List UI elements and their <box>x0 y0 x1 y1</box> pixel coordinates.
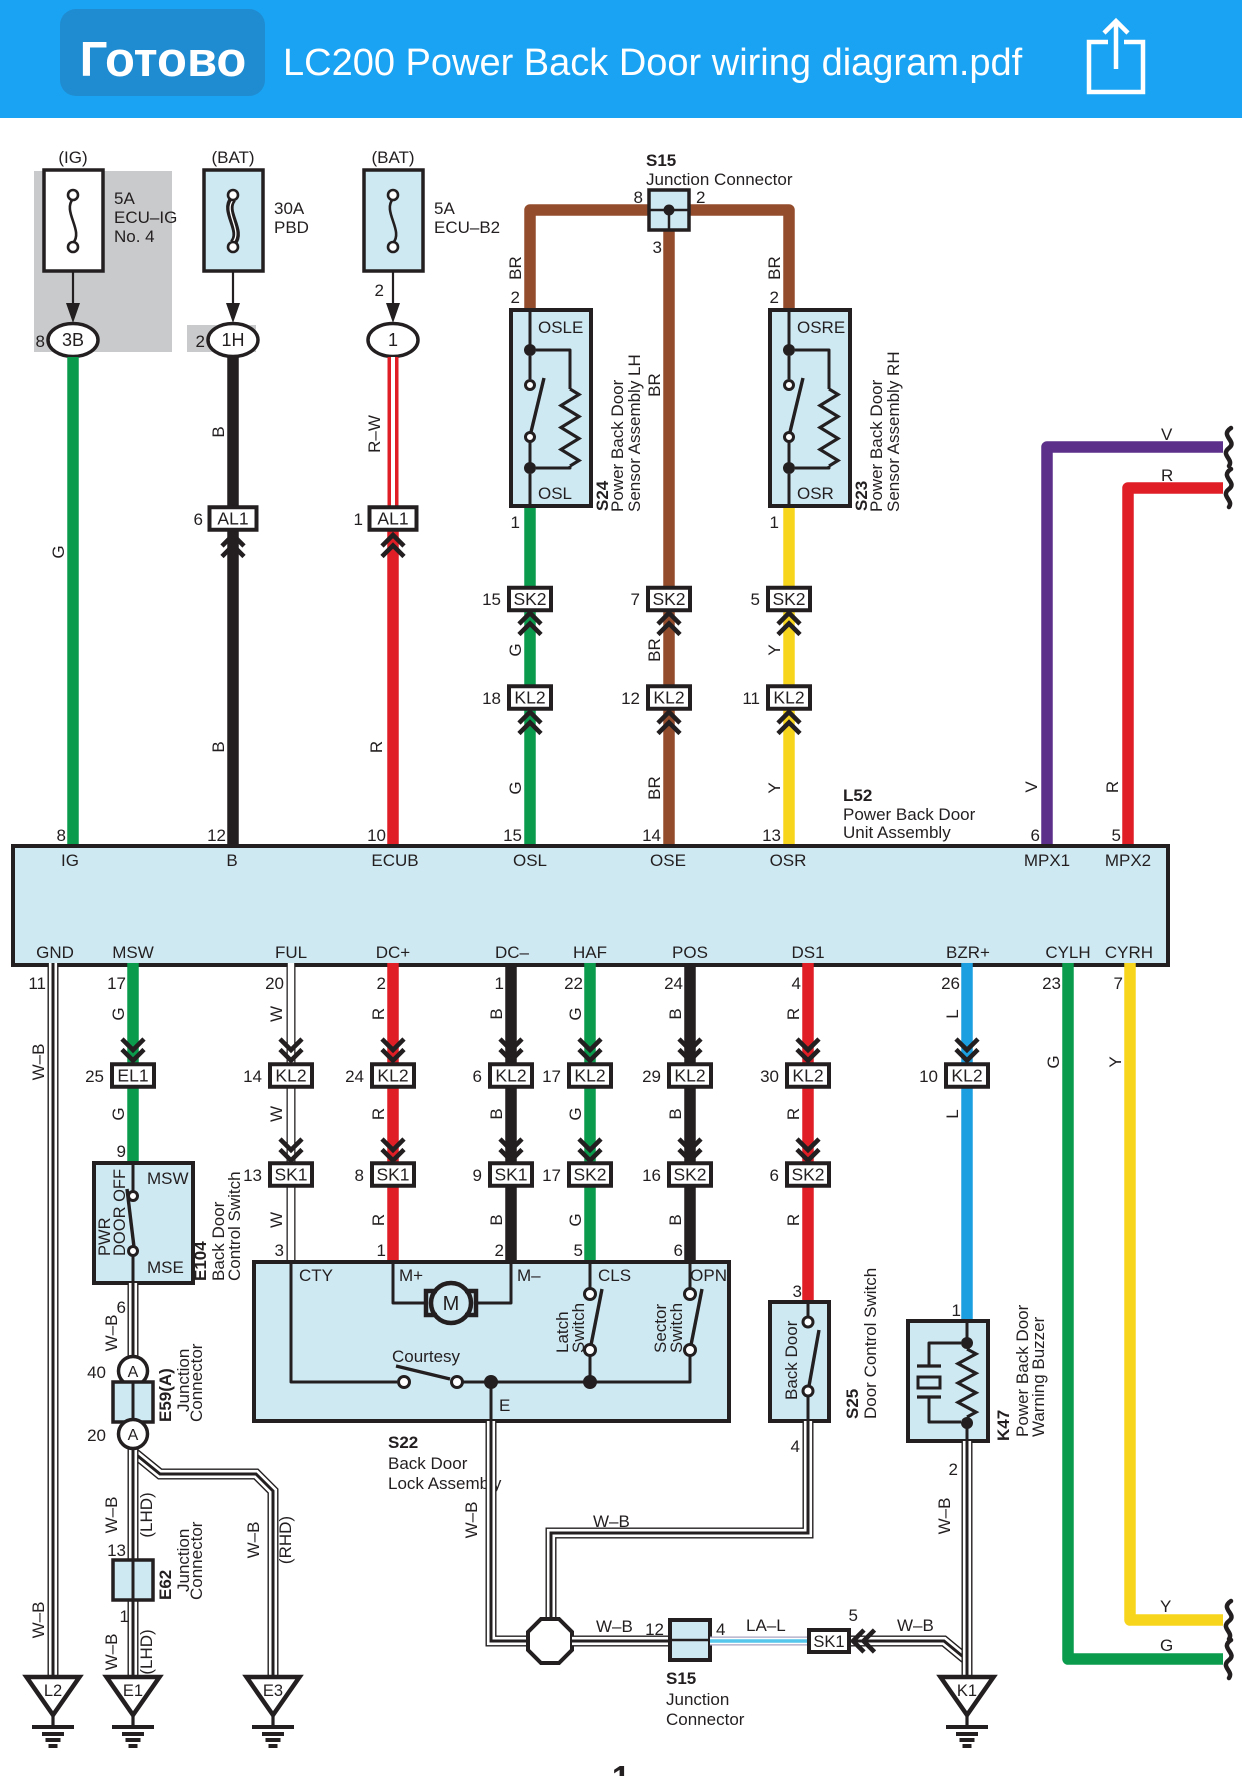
svg-text:E59(A): E59(A) <box>156 1368 175 1422</box>
svg-text:30: 30 <box>760 1067 779 1086</box>
svg-text:16: 16 <box>642 1166 661 1185</box>
connector KL2 pin 11 <box>768 686 810 709</box>
wire W-B MSE to E59 <box>128 1283 139 1677</box>
svg-text:3: 3 <box>653 238 662 257</box>
svg-text:25: 25 <box>85 1067 104 1086</box>
svg-text:KL2: KL2 <box>377 1066 408 1086</box>
svg-text:1H: 1H <box>221 330 244 350</box>
done button <box>60 9 265 96</box>
wire W-B K47 to ground K1 <box>962 1441 973 1677</box>
svg-text:11: 11 <box>742 689 760 708</box>
svg-text:W–B: W–B <box>935 1498 954 1535</box>
svg-text:R: R <box>1161 466 1173 485</box>
svg-text:LC200 Power Back Door wiring d: LC200 Power Back Door wiring diagram.pdf <box>283 42 1023 84</box>
svg-text:Switch: Switch <box>569 1303 588 1353</box>
svg-text:26: 26 <box>941 974 960 993</box>
svg-text:DOOR OFF: DOOR OFF <box>111 1169 129 1256</box>
junction connector E62 <box>113 1560 153 1600</box>
svg-text:R–W: R–W <box>365 415 384 453</box>
svg-text:SK2: SK2 <box>791 1165 824 1185</box>
svg-text:E1: E1 <box>123 1682 143 1700</box>
svg-text:OSR: OSR <box>797 484 834 503</box>
wire fuse F1 to connector 3B <box>72 271 74 308</box>
svg-text:G: G <box>566 1107 585 1120</box>
svg-text:ECU–IG: ECU–IG <box>114 208 177 227</box>
svg-text:1: 1 <box>770 513 779 532</box>
svg-text:G: G <box>1160 1636 1173 1655</box>
svg-text:G: G <box>109 1107 128 1120</box>
svg-text:6: 6 <box>194 510 203 529</box>
wire fuse F3 to connector 1 <box>392 271 394 308</box>
power back door unit assembly L52 <box>13 846 1168 965</box>
svg-text:2: 2 <box>696 188 705 207</box>
wire fuse F2 to connector 1H <box>232 271 234 308</box>
svg-text:HAF: HAF <box>573 943 607 962</box>
svg-text:Control Switch: Control Switch <box>225 1171 244 1281</box>
svg-text:Junction Connector: Junction Connector <box>646 170 793 189</box>
svg-text:Y: Y <box>1106 1056 1125 1067</box>
wire G MSW <box>127 963 139 1163</box>
svg-text:L2: L2 <box>44 1682 62 1700</box>
svg-text:S15: S15 <box>666 1669 696 1688</box>
svg-text:OSLE: OSLE <box>538 318 583 337</box>
svg-text:CYLH: CYLH <box>1045 943 1090 962</box>
svg-text:B: B <box>487 1108 506 1119</box>
svg-text:W–B: W–B <box>462 1502 481 1539</box>
wire R MPX2 <box>1128 488 1223 848</box>
svg-text:G: G <box>506 643 525 656</box>
wire LA-L S15 to SK1 <box>710 1637 809 1646</box>
svg-text:1: 1 <box>511 513 520 532</box>
svg-text:Back Door: Back Door <box>782 1320 801 1400</box>
svg-text:22: 22 <box>564 974 583 993</box>
svg-text:BR: BR <box>645 638 664 662</box>
svg-text:AL1: AL1 <box>217 509 248 529</box>
svg-text:MSW: MSW <box>112 943 154 962</box>
svg-text:POS: POS <box>672 943 708 962</box>
svg-text:14: 14 <box>243 1067 262 1086</box>
svg-text:OSRE: OSRE <box>797 318 845 337</box>
svg-text:M: M <box>443 1293 460 1315</box>
svg-text:SK2: SK2 <box>573 1165 606 1185</box>
connector SK1 pin 13 <box>270 1163 312 1186</box>
svg-text:13: 13 <box>107 1541 126 1560</box>
svg-text:9: 9 <box>473 1166 482 1185</box>
svg-text:W–B: W–B <box>102 1497 121 1534</box>
svg-text:SK2: SK2 <box>513 589 546 609</box>
connector KL2 pin 24 <box>372 1064 414 1087</box>
svg-text:K47: K47 <box>994 1410 1013 1441</box>
svg-text:(LHD): (LHD) <box>137 1492 156 1537</box>
svg-text:15: 15 <box>482 590 501 609</box>
svg-text:9: 9 <box>117 1142 126 1161</box>
svg-text:1: 1 <box>495 974 504 993</box>
wire W-B SK1 to K1 wire <box>849 1641 967 1660</box>
svg-text:G: G <box>1044 1055 1063 1068</box>
svg-text:W–B: W–B <box>897 1616 934 1635</box>
junction octagon <box>528 1619 572 1663</box>
svg-text:8: 8 <box>634 188 643 207</box>
svg-text:6: 6 <box>117 1298 126 1317</box>
motor M <box>393 1262 425 1303</box>
svg-text:W: W <box>267 1106 286 1122</box>
svg-text:10: 10 <box>919 1067 938 1086</box>
wire L BZR+ <box>961 963 973 1321</box>
connector KL2 pin 30 <box>787 1064 829 1087</box>
svg-text:Door Control Switch: Door Control Switch <box>861 1268 880 1419</box>
svg-text:7: 7 <box>631 590 640 609</box>
svg-text:R: R <box>369 1214 388 1226</box>
buzzer symbol <box>929 1343 961 1366</box>
svg-text:24: 24 <box>345 1067 364 1086</box>
svg-text:5: 5 <box>1112 826 1121 845</box>
svg-text:DS1: DS1 <box>791 943 824 962</box>
svg-text:17: 17 <box>542 1067 561 1086</box>
svg-text:KL2: KL2 <box>674 1066 705 1086</box>
svg-text:R: R <box>369 1008 388 1020</box>
svg-text:W–B: W–B <box>102 1634 121 1671</box>
svg-text:CTY: CTY <box>299 1266 333 1285</box>
svg-text:OSL: OSL <box>513 851 547 870</box>
svg-text:7: 7 <box>1114 974 1123 993</box>
connector SK1 pin 8 <box>372 1163 414 1186</box>
svg-text:(BAT): (BAT) <box>371 148 414 167</box>
svg-text:- 1 -: - 1 - <box>592 1759 651 1776</box>
svg-text:Connector: Connector <box>187 1343 206 1422</box>
ground E1 <box>107 1677 160 1746</box>
wire W FUL <box>287 963 296 1262</box>
share icon <box>1089 21 1143 92</box>
svg-text:L: L <box>943 1109 962 1118</box>
svg-text:KL2: KL2 <box>514 688 545 708</box>
wire G HAF <box>584 963 596 1262</box>
svg-text:Warning Buzzer: Warning Buzzer <box>1029 1316 1048 1437</box>
svg-text:CYRH: CYRH <box>1105 943 1153 962</box>
svg-text:W–B: W–B <box>244 1522 263 1559</box>
svg-text:EL1: EL1 <box>117 1066 148 1086</box>
svg-text:No. 4: No. 4 <box>114 227 155 246</box>
wire B fuse to L52 B <box>227 357 239 848</box>
svg-text:2: 2 <box>375 281 384 300</box>
svg-text:15: 15 <box>503 826 522 845</box>
svg-text:2: 2 <box>949 1460 958 1479</box>
door control switch S25 <box>770 1302 829 1421</box>
svg-text:Sensor Assembly RH: Sensor Assembly RH <box>884 351 903 512</box>
latch switch <box>589 1262 592 1289</box>
svg-text:E104: E104 <box>191 1241 210 1281</box>
svg-text:W–B: W–B <box>102 1315 121 1352</box>
sector switch <box>689 1262 692 1289</box>
svg-text:R: R <box>369 1108 388 1120</box>
svg-text:G: G <box>49 545 68 558</box>
svg-text:20: 20 <box>265 974 284 993</box>
svg-text:OSR: OSR <box>770 851 807 870</box>
svg-text:R: R <box>367 741 386 753</box>
svg-text:3: 3 <box>275 1241 284 1260</box>
svg-text:Lock Assembly: Lock Assembly <box>388 1474 502 1493</box>
svg-text:12: 12 <box>645 1620 664 1639</box>
svg-text:BR: BR <box>765 256 784 280</box>
wire BR S15 pin3 to L52 OSE <box>663 228 675 848</box>
svg-text:40: 40 <box>87 1363 106 1382</box>
svg-text:23: 23 <box>1042 974 1061 993</box>
connector KL2 pin 17 <box>569 1064 611 1087</box>
svg-text:11: 11 <box>28 974 46 993</box>
svg-text:BR: BR <box>645 776 664 800</box>
svg-text:E62: E62 <box>156 1570 175 1600</box>
junction connector E59(A) <box>113 1382 153 1422</box>
svg-text:FUL: FUL <box>275 943 307 962</box>
svg-text:Back Door: Back Door <box>388 1454 468 1473</box>
svg-text:3B: 3B <box>62 330 84 350</box>
connector SK1 <box>809 1630 849 1652</box>
svg-text:B: B <box>226 851 237 870</box>
ground L2 <box>27 1677 80 1746</box>
svg-text:KL2: KL2 <box>495 1066 526 1086</box>
svg-text:ECUB: ECUB <box>371 851 418 870</box>
connector SK2 pin 6 <box>787 1163 829 1186</box>
wire W-B S25 to octagon <box>551 1421 808 1618</box>
svg-text:K1: K1 <box>957 1682 977 1700</box>
svg-text:1: 1 <box>952 1301 961 1320</box>
svg-text:W: W <box>267 1006 286 1022</box>
svg-text:G: G <box>109 1007 128 1020</box>
svg-text:5A: 5A <box>434 199 455 218</box>
power back door sensor assembly RH S23 <box>770 310 850 506</box>
wire R DS1 <box>802 963 814 1302</box>
svg-text:AL1: AL1 <box>377 509 408 529</box>
back door control switch E104 <box>94 1163 193 1283</box>
svg-text:B: B <box>666 1108 685 1119</box>
connector SK2 pin 5 <box>768 588 810 611</box>
svg-text:Sensor Assembly LH: Sensor Assembly LH <box>625 354 644 512</box>
svg-text:KL2: KL2 <box>574 1066 605 1086</box>
svg-text:8: 8 <box>57 826 66 845</box>
connector KL2 pin 29 <box>669 1064 711 1087</box>
svg-text:Y: Y <box>765 644 784 655</box>
svg-text:20: 20 <box>87 1426 106 1445</box>
svg-text:R: R <box>784 1108 803 1120</box>
svg-text:G: G <box>566 1213 585 1226</box>
header bar <box>0 0 1242 118</box>
svg-text:R: R <box>1103 781 1122 793</box>
connector KL2 pin 6 <box>490 1064 532 1087</box>
svg-text:29: 29 <box>642 1067 661 1086</box>
svg-text:W–B: W–B <box>593 1512 630 1531</box>
svg-text:SK1: SK1 <box>494 1165 527 1185</box>
connector SK2 pin 7 <box>648 588 690 611</box>
svg-text:W: W <box>267 1212 286 1228</box>
svg-text:GND: GND <box>36 943 74 962</box>
fuse F1 5A ECU-IG No.4 <box>44 170 103 271</box>
svg-text:6: 6 <box>473 1067 482 1086</box>
wire R DC+ <box>387 963 399 1262</box>
ground E3 <box>247 1677 300 1746</box>
connector AL1 pin6 <box>210 507 257 530</box>
svg-text:18: 18 <box>482 689 501 708</box>
svg-text:PBD: PBD <box>274 218 309 237</box>
svg-text:KL2: KL2 <box>792 1066 823 1086</box>
junction connector S15 bottom <box>670 1620 710 1660</box>
svg-text:(BAT): (BAT) <box>211 148 254 167</box>
svg-text:2: 2 <box>495 1241 504 1260</box>
svg-text:24: 24 <box>664 974 683 993</box>
svg-text:2: 2 <box>511 288 520 307</box>
back door lock assembly S22 <box>254 1262 729 1421</box>
connector KL2 pin 18 <box>509 686 551 709</box>
break symbol G <box>1226 1640 1232 1678</box>
connector KL2 pin 12 <box>648 686 690 709</box>
svg-text:MPX2: MPX2 <box>1105 851 1151 870</box>
svg-text:IG: IG <box>61 851 79 870</box>
power back door sensor assembly LH S24 <box>511 310 591 506</box>
wire Y CYRH <box>1130 963 1223 1620</box>
junction connector S15 top <box>649 190 689 230</box>
connector SK2 pin 17 <box>569 1163 611 1186</box>
svg-text:(IG): (IG) <box>58 148 87 167</box>
svg-text:5: 5 <box>574 1241 583 1260</box>
svg-text:1: 1 <box>120 1607 129 1626</box>
svg-text:17: 17 <box>542 1166 561 1185</box>
connector 3B <box>48 324 98 357</box>
wire V MPX1 <box>1047 447 1223 848</box>
svg-text:Connector: Connector <box>187 1521 206 1600</box>
svg-text:KL2: KL2 <box>653 688 684 708</box>
fuse F2 30A PBD <box>204 170 263 271</box>
gray shading behind 1H connector <box>187 325 256 352</box>
break symbol V <box>1226 428 1232 466</box>
svg-text:Courtesy: Courtesy <box>392 1347 461 1366</box>
S22 internal wire CTY <box>291 1262 397 1382</box>
svg-text:Y: Y <box>765 782 784 793</box>
gray shading behind ECU-IG fuse <box>34 171 172 352</box>
courtesy switch <box>399 1377 410 1388</box>
svg-text:1: 1 <box>388 330 398 350</box>
svg-text:V: V <box>1022 781 1041 793</box>
node E <box>484 1375 498 1389</box>
svg-text:5: 5 <box>849 1606 858 1625</box>
connector 1H <box>208 324 258 357</box>
svg-text:S25: S25 <box>843 1389 862 1419</box>
svg-text:4: 4 <box>792 974 801 993</box>
svg-text:SK2: SK2 <box>772 589 805 609</box>
wire G fuse to L52 IG <box>67 357 79 848</box>
svg-text:G: G <box>566 1007 585 1020</box>
svg-text:W–B: W–B <box>596 1617 633 1636</box>
svg-text:BR: BR <box>645 373 664 397</box>
wire R-W fuse to AL1 <box>388 357 399 512</box>
svg-text:MSW: MSW <box>147 1169 189 1188</box>
wire G CYLH <box>1068 963 1223 1659</box>
wire BR S15 to OSRE <box>689 210 789 310</box>
wire W-B octagon to S15 <box>572 1636 670 1647</box>
svg-text:L: L <box>943 1009 962 1018</box>
svg-text:B: B <box>666 1214 685 1225</box>
svg-text:B: B <box>209 426 228 437</box>
svg-text:(RHD): (RHD) <box>276 1516 295 1564</box>
svg-text:Connector: Connector <box>666 1710 745 1729</box>
connector 1 <box>368 324 418 357</box>
svg-text:B: B <box>487 1214 506 1225</box>
fuse F3 5A ECU-B2 <box>364 170 423 271</box>
svg-text:12: 12 <box>621 689 640 708</box>
svg-text:S15: S15 <box>646 151 676 170</box>
power back door warning buzzer K47 <box>908 1321 988 1441</box>
svg-text:A: A <box>128 1364 139 1381</box>
svg-text:Y: Y <box>1160 1597 1171 1616</box>
svg-text:1: 1 <box>377 1241 386 1260</box>
svg-text:W–B: W–B <box>29 1602 48 1639</box>
svg-text:DC–: DC– <box>495 943 530 962</box>
svg-text:1: 1 <box>354 510 363 529</box>
svg-text:Готово: Готово <box>80 33 247 87</box>
svg-text:5A: 5A <box>114 189 135 208</box>
connector SK2 pin 16 <box>669 1163 711 1186</box>
wire W-B GND to ground L2 <box>48 963 59 1677</box>
svg-text:W–B: W–B <box>29 1044 48 1081</box>
svg-text:KL2: KL2 <box>773 688 804 708</box>
svg-text:ECU–B2: ECU–B2 <box>434 218 500 237</box>
svg-text:V: V <box>1161 425 1173 444</box>
ground K1 <box>941 1677 994 1746</box>
wire Y OSR to L52 <box>783 506 795 848</box>
svg-text:Junction: Junction <box>666 1690 729 1709</box>
svg-text:2: 2 <box>196 332 205 351</box>
svg-text:13: 13 <box>762 826 781 845</box>
svg-text:OSL: OSL <box>538 484 572 503</box>
wire B POS <box>684 963 696 1262</box>
svg-text:6: 6 <box>1031 826 1040 845</box>
svg-text:BZR+: BZR+ <box>946 943 990 962</box>
svg-text:Power Back Door: Power Back Door <box>843 805 976 824</box>
svg-text:SK1: SK1 <box>376 1165 409 1185</box>
svg-text:12: 12 <box>207 826 226 845</box>
svg-text:OPN: OPN <box>690 1266 727 1285</box>
svg-text:R: R <box>784 1214 803 1226</box>
svg-text:Switch: Switch <box>667 1303 686 1353</box>
wire B DC- <box>505 963 517 1262</box>
svg-text:5: 5 <box>751 590 760 609</box>
svg-text:4: 4 <box>791 1437 800 1456</box>
svg-text:SK2: SK2 <box>652 589 685 609</box>
svg-text:KL2: KL2 <box>951 1066 982 1086</box>
svg-text:DC+: DC+ <box>376 943 411 962</box>
svg-text:KL2: KL2 <box>275 1066 306 1086</box>
svg-text:E3: E3 <box>263 1682 283 1700</box>
svg-text:OSE: OSE <box>650 851 686 870</box>
svg-text:(LHD): (LHD) <box>137 1629 156 1674</box>
connector SK2 pin 15 <box>509 588 551 611</box>
connector SK1 pin 9 <box>490 1163 532 1186</box>
svg-text:10: 10 <box>367 826 386 845</box>
break symbol R <box>1226 469 1232 507</box>
svg-text:2: 2 <box>770 288 779 307</box>
wire W-B RHD branch <box>133 1452 273 1677</box>
svg-text:3: 3 <box>793 1282 802 1301</box>
svg-text:SK1: SK1 <box>813 1633 844 1651</box>
svg-text:E: E <box>499 1396 510 1415</box>
wire G OSL to L52 <box>524 506 536 848</box>
svg-text:M–: M– <box>517 1266 541 1285</box>
connector EL1 pin 25 <box>112 1064 154 1087</box>
svg-text:B: B <box>487 1008 506 1019</box>
svg-text:MSE: MSE <box>147 1258 184 1277</box>
svg-text:8: 8 <box>36 332 45 351</box>
svg-text:6: 6 <box>770 1166 779 1185</box>
wire W-B S22 E to octagon <box>491 1421 526 1641</box>
wire BR S15 to OSLE <box>530 210 649 310</box>
svg-text:G: G <box>506 781 525 794</box>
